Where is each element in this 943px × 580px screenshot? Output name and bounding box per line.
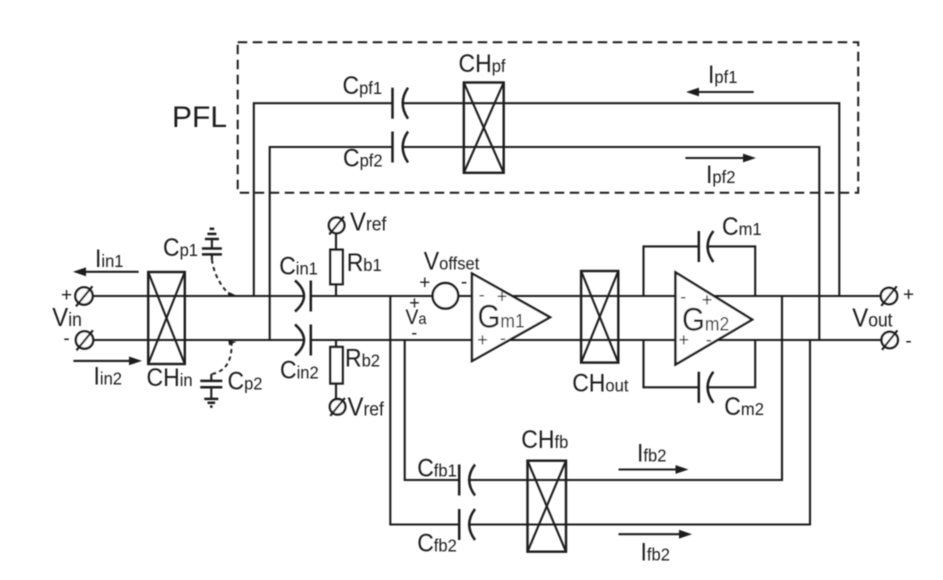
wire PFL top-left: down-leg to top rail and run to Cpf1 (254, 103, 393, 296)
node blob where Cp2 link meets bottom rail (228, 341, 236, 346)
wire Cfb2 run: cap to CHfb to right leg up to bottom rail (470, 340, 811, 525)
arrow Iin1 (leftward) (73, 267, 139, 276)
wire Cm1 loop right: Cm1 across and down to top rail at Gm2 output (707, 246, 755, 296)
wire top rail: Vin+ to Cin1 (93, 295, 304, 297)
wire Cm1 loop left: top rail up and across to Cm1 (644, 246, 699, 296)
offset source Voffset (433, 283, 459, 309)
op-amp Gm1 (472, 274, 550, 362)
op-amp Gm2 (676, 272, 753, 364)
capacitor Cp2 (parasitic to ground) (200, 374, 222, 399)
svg-text:PFL: PFL (172, 101, 227, 134)
terminal Vout+ (881, 286, 897, 305)
chopper CHpf (464, 83, 504, 173)
terminal Vref (bottom) (330, 398, 346, 416)
wire Cm2 loop left: bottom rail down and across to Cm2 (644, 340, 699, 387)
arrow Ipf1 (leftward) (686, 88, 754, 97)
wire Rb2 stems (335, 340, 337, 399)
terminal Vout- (882, 330, 898, 349)
svg-text:-: - (411, 322, 417, 342)
capacitor Cin1 (295, 281, 311, 312)
PFL dashed boundary box (238, 42, 859, 193)
svg-text:-: - (461, 272, 467, 293)
wire Cfb1 run: cap to CHfb to right leg up to top rail (470, 296, 783, 480)
wire PFL bottom-right: from Cpf2 through CHpf to right leg down to bottom rail (403, 147, 820, 340)
svg-text:-: - (706, 329, 712, 349)
node Va+ tap: vertical from top rail down to Cfb2 run (390, 296, 459, 525)
wire Rb1 stems (335, 233, 337, 296)
wire dashed link Cp2 to bottom rail (212, 342, 232, 375)
arrow Ifb2 bottom (rightward) (619, 530, 693, 539)
resistor Rb1 (330, 250, 342, 285)
svg-text:Vref: Vref (348, 393, 385, 422)
ground (below Cp2) (204, 399, 218, 407)
wire top rail: Voffset to Vout+ (458, 295, 881, 297)
wire bottom rail: Vin- to Cin2 (93, 339, 304, 341)
svg-text:+: + (903, 285, 914, 306)
svg-text:-: - (500, 328, 506, 348)
capacitor Cm1 (699, 231, 714, 262)
svg-text:+: + (679, 330, 690, 350)
capacitor Cm2 (699, 372, 714, 403)
terminal Vin+ (75, 286, 92, 306)
capacitor Cfb2 (459, 509, 475, 540)
svg-text:Vref: Vref (350, 208, 387, 237)
terminal Vin- (76, 330, 93, 350)
arrow Ifb2 top (rightward) (619, 465, 689, 474)
chopper CHfb (528, 461, 567, 552)
arrow Iin2 (rightward) (73, 357, 142, 366)
node blob where Cp1 link meets top rail (228, 292, 236, 297)
node Va- tap: vertical from bottom rail down to Cfb1 run (405, 340, 460, 480)
wire top rail: Cin1 to Voffset source (311, 295, 433, 297)
chopper CHin (148, 272, 185, 364)
terminal Vref (top) (329, 217, 345, 235)
svg-text:+: + (477, 330, 488, 350)
arrow Ipf2 (rightward) (685, 154, 756, 163)
wire PFL top-right: from Cpf1 through CHpf to right leg down to top rail (403, 103, 840, 296)
svg-text:Vout: Vout (852, 304, 892, 333)
capacitor Cpf1 (393, 88, 409, 119)
wire dashed link Cp1 to top rail (212, 260, 230, 296)
wire bottom rail: Cin2 to Vout- (311, 339, 882, 341)
capacitor Cpf2 (393, 132, 409, 163)
wire PFL bottom-left: down-leg to bottom rail and run to Cpf2 (270, 147, 393, 340)
capacitor Cp1 (parasitic to ground) (202, 239, 222, 260)
ground (above Cp1) (205, 229, 219, 239)
capacitor Cin2 (295, 325, 311, 356)
wire Cm2 loop right: Cm2 across and up to bottom rail at Gm2 output (707, 340, 755, 387)
chopper CHout (581, 271, 618, 363)
resistor Rb2 (330, 347, 342, 384)
svg-text:-: - (905, 331, 911, 352)
capacitor Cfb1 (459, 465, 475, 496)
svg-text:Vin: Vin (52, 303, 82, 332)
